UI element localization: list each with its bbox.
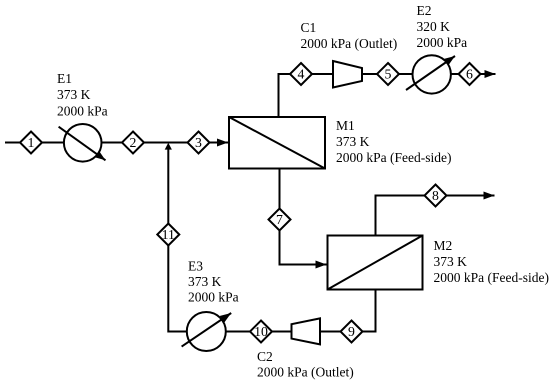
node 2 bbox=[122, 132, 144, 154]
node 3 bbox=[188, 132, 210, 154]
membrane M1 bbox=[229, 117, 325, 169]
heat exchanger E3 bbox=[187, 312, 226, 351]
svg-text:2000 kPa (Feed-side): 2000 kPa (Feed-side) bbox=[434, 270, 549, 285]
svg-text:C1: C1 bbox=[301, 20, 317, 35]
wire M2 top to 8 bbox=[376, 196, 425, 236]
wire 4 to C1 bbox=[312, 73, 333, 75]
svg-text:1: 1 bbox=[28, 135, 35, 150]
node 8 bbox=[425, 185, 447, 207]
wire 2 to 3 with junction bbox=[144, 142, 188, 144]
svg-text:373 K: 373 K bbox=[336, 134, 370, 149]
wire recycle up-arrow junction bbox=[167, 148, 169, 224]
svg-text:320 K: 320 K bbox=[417, 19, 451, 34]
wire 9 to C2 bbox=[320, 331, 341, 333]
svg-text:2000 kPa: 2000 kPa bbox=[417, 35, 468, 50]
wire E3 to recycle corner and up to 11 bbox=[168, 246, 187, 332]
svg-text:7: 7 bbox=[276, 212, 283, 227]
node 11 bbox=[157, 224, 179, 246]
svg-text:C2: C2 bbox=[257, 349, 273, 364]
svg-text:E3: E3 bbox=[188, 259, 203, 274]
wire C1 to 5 bbox=[362, 73, 377, 75]
svg-text:373 K: 373 K bbox=[434, 254, 468, 269]
wire M2 bottom to 9 bbox=[363, 290, 376, 332]
svg-text:2000 kPa: 2000 kPa bbox=[57, 103, 108, 118]
svg-text:2000 kPa: 2000 kPa bbox=[188, 290, 239, 305]
wire stream 1 inlet bbox=[5, 142, 21, 144]
svg-text:6: 6 bbox=[466, 67, 473, 82]
compressor C1 bbox=[333, 61, 362, 88]
node 4 bbox=[290, 63, 312, 85]
wire 1 to E1 bbox=[42, 142, 64, 144]
membrane M2 bbox=[328, 236, 423, 290]
svg-text:373 K: 373 K bbox=[57, 87, 91, 102]
svg-text:M1: M1 bbox=[336, 118, 355, 133]
svg-text:2000 kPa (Feed-side): 2000 kPa (Feed-side) bbox=[336, 150, 451, 165]
svg-text:11: 11 bbox=[162, 227, 175, 242]
wire stream 6 outlet bbox=[481, 73, 496, 75]
svg-text:373 K: 373 K bbox=[188, 274, 222, 289]
svg-text:M2: M2 bbox=[434, 238, 453, 253]
svg-text:2: 2 bbox=[130, 135, 137, 150]
svg-text:8: 8 bbox=[432, 188, 439, 203]
node 10 bbox=[250, 321, 272, 343]
wire 3 into M1 bbox=[210, 142, 229, 144]
node 7 bbox=[269, 209, 291, 231]
wire 5 to E2 bbox=[399, 73, 413, 75]
node 1 bbox=[20, 132, 42, 154]
svg-text:3: 3 bbox=[195, 135, 202, 150]
svg-text:2000 kPa (Outlet): 2000 kPa (Outlet) bbox=[257, 364, 354, 379]
heat exchanger E1 bbox=[64, 124, 102, 162]
svg-text:E1: E1 bbox=[57, 71, 72, 86]
svg-text:E2: E2 bbox=[417, 3, 432, 18]
node 5 bbox=[377, 63, 399, 85]
svg-text:4: 4 bbox=[298, 67, 305, 82]
node 6 bbox=[459, 63, 481, 85]
svg-text:10: 10 bbox=[254, 324, 268, 339]
wire C2 to 10 bbox=[272, 331, 292, 333]
heat exchanger E2 bbox=[413, 55, 451, 93]
wire 10 to E3 bbox=[226, 331, 250, 333]
wire E2 to 6 bbox=[451, 73, 459, 75]
node 9 bbox=[341, 321, 363, 343]
compressor C2 bbox=[292, 318, 321, 344]
wire stream 8 outlet bbox=[447, 195, 495, 197]
wire M1 bottom to 7 bbox=[279, 169, 281, 210]
svg-text:5: 5 bbox=[385, 67, 392, 82]
svg-text:9: 9 bbox=[348, 324, 355, 339]
svg-text:2000 kPa (Outlet): 2000 kPa (Outlet) bbox=[301, 36, 398, 51]
wire M1 top to 4 bbox=[279, 74, 291, 117]
wire 7 into M2 bbox=[280, 231, 327, 265]
wire E1 to 2 bbox=[102, 142, 123, 144]
